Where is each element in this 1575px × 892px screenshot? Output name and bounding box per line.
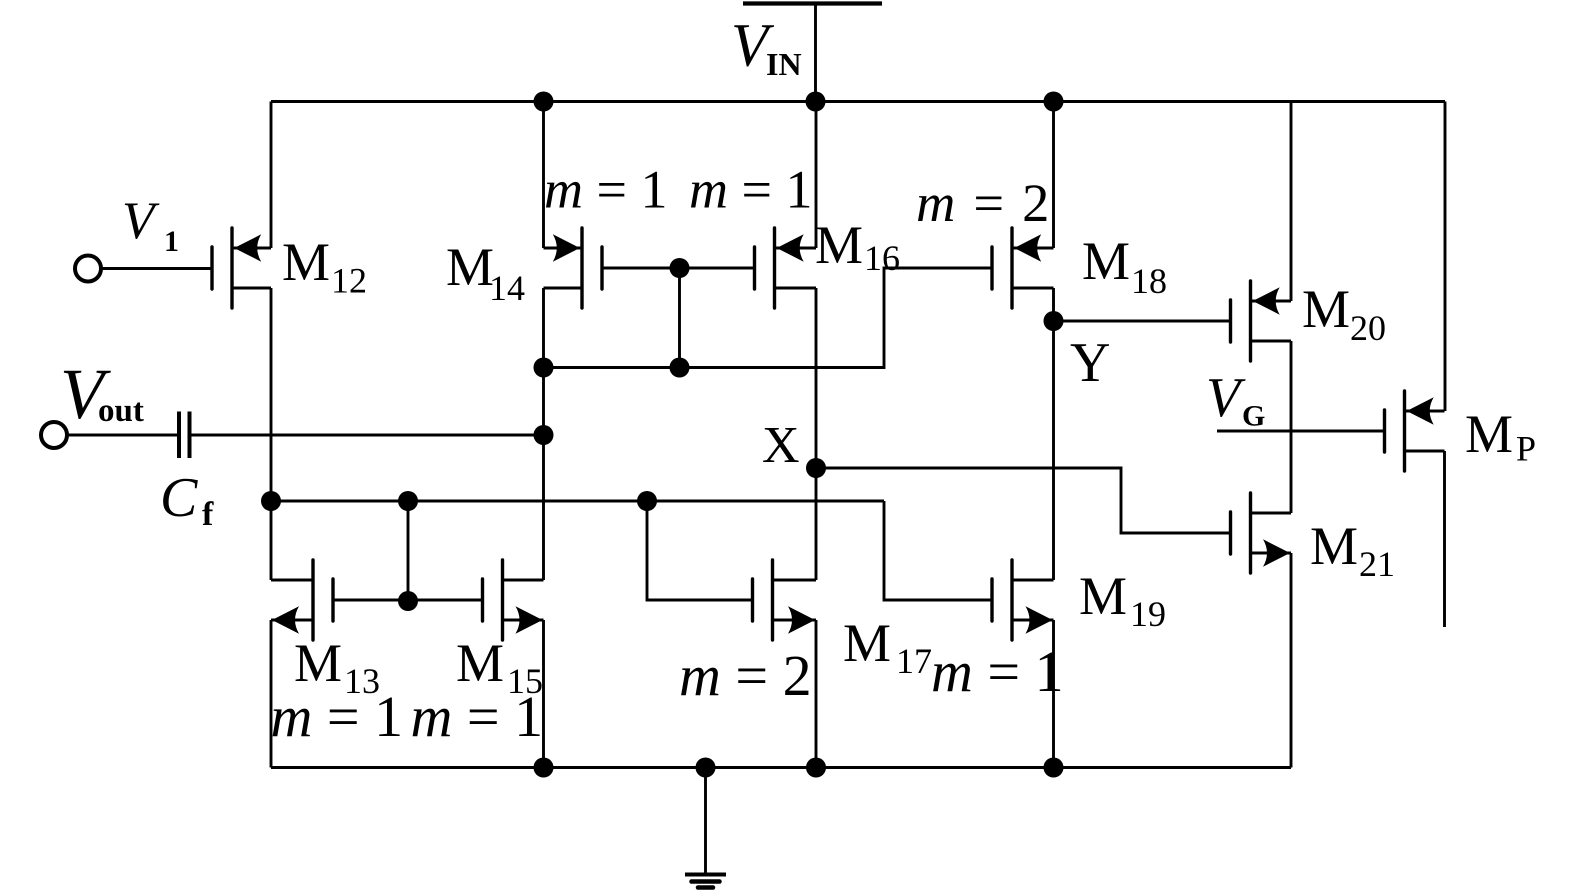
svg-text:V: V	[1206, 367, 1246, 429]
svg-text:18: 18	[1131, 261, 1167, 301]
svg-text:20: 20	[1350, 308, 1386, 348]
svg-text:V: V	[122, 192, 160, 250]
svg-text:C: C	[160, 467, 198, 529]
svg-text:m = 1: m = 1	[271, 684, 404, 749]
svg-text:M: M	[1302, 279, 1350, 339]
svg-text:Y: Y	[1070, 332, 1110, 394]
svg-text:P: P	[1516, 429, 1536, 469]
svg-text:m = 2: m = 2	[679, 643, 812, 708]
svg-text:M: M	[1082, 231, 1130, 291]
svg-text:m = 1: m = 1	[411, 684, 544, 749]
svg-text:M: M	[446, 237, 494, 297]
svg-text:m = 2: m = 2	[916, 172, 1052, 233]
svg-text:m = 1: m = 1	[544, 160, 667, 220]
svg-text:16: 16	[864, 238, 900, 278]
svg-text:f: f	[202, 496, 214, 533]
svg-text:M: M	[843, 613, 891, 673]
svg-text:1: 1	[164, 225, 179, 258]
svg-text:M: M	[1310, 516, 1358, 576]
svg-text:M: M	[1079, 566, 1127, 626]
svg-text:M: M	[815, 215, 863, 275]
svg-text:M: M	[282, 232, 330, 292]
svg-text:m = 1: m = 1	[689, 160, 812, 220]
svg-text:out: out	[98, 393, 144, 429]
svg-text:19: 19	[1130, 594, 1166, 634]
svg-text:21: 21	[1359, 544, 1395, 584]
svg-text:m = 1: m = 1	[931, 639, 1064, 704]
svg-text:IN: IN	[766, 46, 802, 82]
svg-text:X: X	[762, 417, 800, 474]
svg-text:M: M	[1465, 404, 1513, 464]
svg-text:G: G	[1242, 400, 1265, 433]
svg-text:14: 14	[489, 268, 525, 308]
svg-text:17: 17	[896, 641, 932, 681]
svg-text:12: 12	[331, 261, 367, 301]
